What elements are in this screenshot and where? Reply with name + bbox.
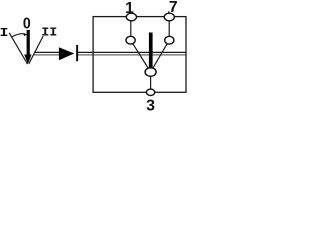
actuator bar	[149, 33, 153, 71]
moving contact blade left	[131, 40, 151, 72]
moving contact pivot circle	[145, 68, 156, 77]
svg-text:3: 3	[146, 98, 155, 115]
moving contact blade right	[151, 40, 170, 72]
terminal 3 contact circle	[146, 89, 154, 95]
pivot to terminal 3 line	[150, 72, 152, 92]
mechanical link double line (right segment)	[78, 52, 187, 55]
svg-text:1: 1	[125, 0, 134, 17]
fixed contact circle 1	[126, 36, 135, 44]
fixed contact circle 7	[165, 36, 174, 44]
svg-text:7: 7	[169, 0, 178, 16]
mechanical link double line (left segment)	[34, 52, 60, 55]
detent bar	[76, 45, 78, 61]
svg-text:0: 0	[23, 15, 31, 33]
terminal 7 lead stub	[168, 11, 170, 17]
position line I	[9, 33, 27, 64]
selector lever arrowhead	[24, 55, 31, 64]
terminal 1 lead stub	[130, 11, 132, 17]
link line terminal1 to fixed contact	[130, 17, 132, 40]
position line II	[29, 36, 43, 64]
switch body box	[93, 17, 186, 93]
spring return arrowhead	[24, 33, 28, 36]
selector lever shaft (position 0)	[27, 30, 30, 55]
link line terminal7 to fixed contact	[168, 17, 170, 40]
spring return arc	[11, 34, 25, 38]
detent triangle	[59, 47, 74, 60]
svg-text:II: II	[41, 25, 57, 39]
terminal 1 contact circle	[126, 13, 136, 21]
svg-text:I: I	[0, 27, 9, 40]
terminal 7 contact circle	[164, 13, 174, 21]
